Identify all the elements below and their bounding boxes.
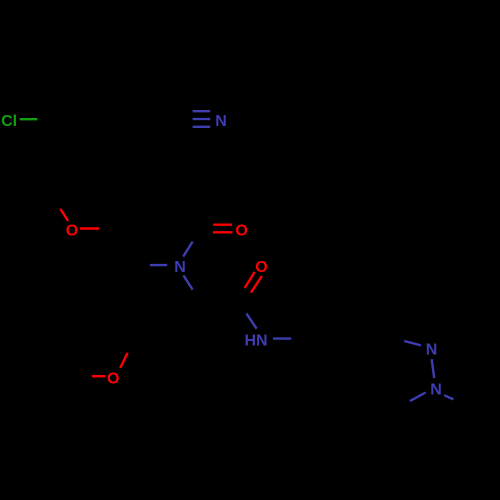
wire bond N3 up-right	[183, 242, 192, 257]
svg-text:HN: HN	[244, 333, 267, 350]
wire lactam C=O double bond line top	[213, 224, 232, 226]
wire nitrile triple bond line 2	[193, 118, 211, 120]
wire bond N2 down-left	[410, 393, 426, 402]
wire bond N2 right (to methyl)	[444, 395, 453, 399]
svg-text:O: O	[66, 223, 78, 240]
wire bond N3 down-right	[183, 275, 192, 289]
wire lactam C=O double bond line bottom	[213, 231, 232, 233]
wire bond O1 right	[80, 227, 99, 230]
wire bond N3 left	[150, 264, 167, 266]
svg-text:Cl: Cl	[1, 113, 17, 130]
svg-text:O: O	[255, 259, 267, 276]
wire bond Cl-C	[20, 118, 38, 120]
wire amide C=O double bond line left	[245, 272, 255, 288]
svg-text:O: O	[235, 223, 247, 240]
wire bond N1 up-left	[404, 341, 421, 345]
svg-text:O: O	[107, 371, 119, 388]
wire bond O1 up-left	[60, 209, 68, 221]
svg-text:N: N	[215, 113, 227, 130]
wire bond O5 up-right	[120, 353, 127, 368]
svg-text:N: N	[174, 259, 186, 276]
wire bond HN right	[273, 337, 291, 339]
wire nitrile triple bond line 3	[193, 126, 211, 128]
svg-text:N: N	[426, 342, 438, 359]
wire bond HN up	[246, 313, 256, 328]
wire bond O5 left	[92, 375, 105, 377]
wire nitrile triple bond line 1	[193, 110, 211, 112]
svg-text:N: N	[430, 382, 442, 399]
wire amide C=O double bond line right	[251, 276, 262, 293]
wire bond N1-N2	[432, 359, 435, 378]
